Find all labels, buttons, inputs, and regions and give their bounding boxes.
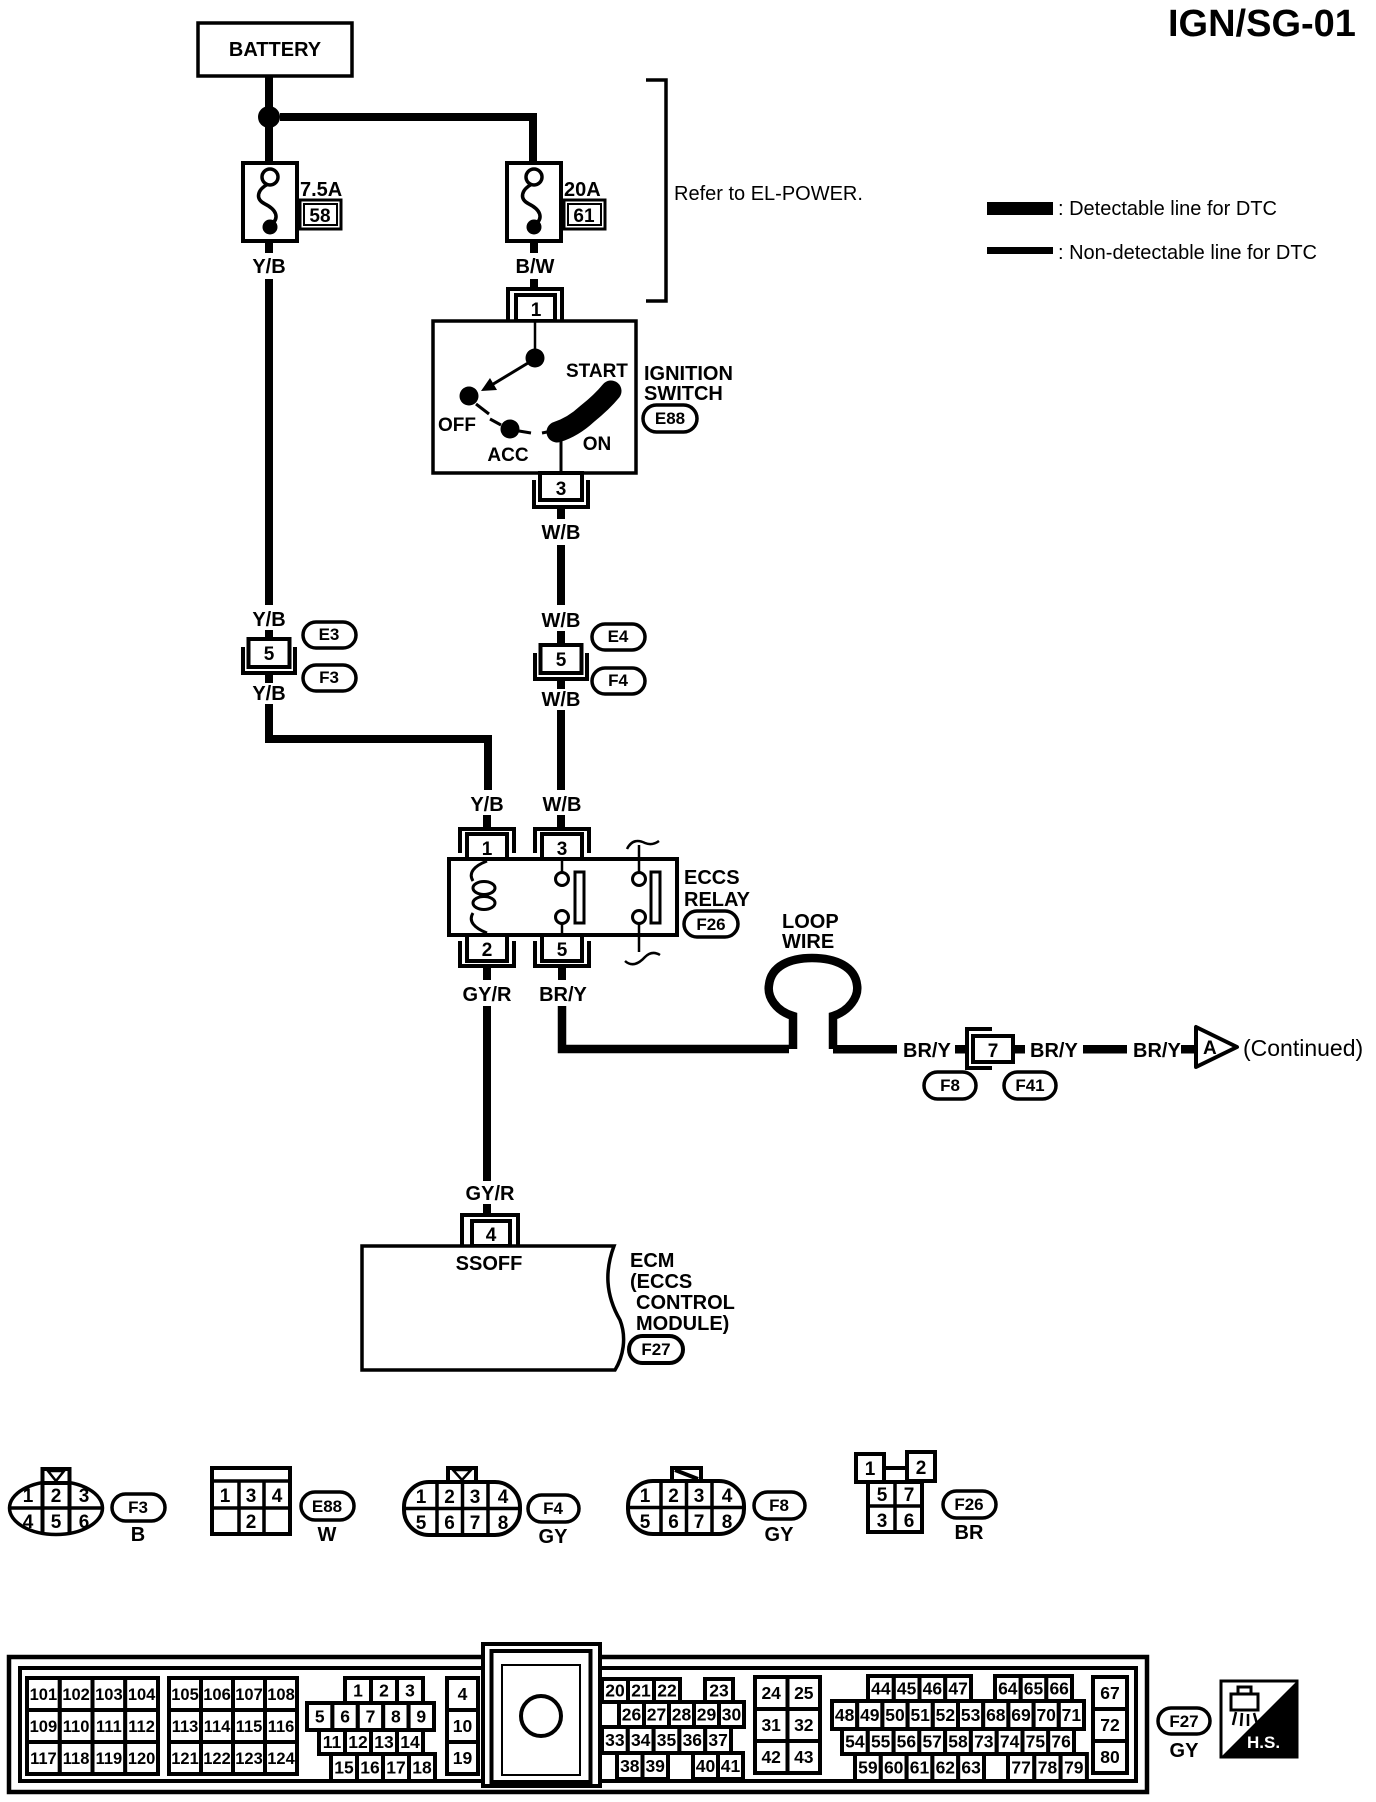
fuse 20A 61 — [507, 163, 605, 241]
svg-text:5: 5 — [416, 1513, 427, 1534]
svg-text:33: 33 — [605, 1730, 625, 1750]
label BR/Y before arrow A — [1133, 1040, 1181, 1062]
wire B/W to ignition switch pin 1 — [530, 279, 538, 291]
svg-text:11: 11 — [323, 1732, 342, 1752]
svg-text:F3: F3 — [128, 1498, 148, 1517]
connector oval F26 relay — [684, 911, 738, 937]
svg-text:5: 5 — [51, 1512, 62, 1533]
svg-text:26: 26 — [622, 1705, 642, 1725]
svg-text:W/B: W/B — [542, 522, 581, 544]
svg-text:15: 15 — [334, 1758, 354, 1778]
ECCS relay spare contact — [625, 841, 660, 964]
wire stub after connector 7 — [1015, 1045, 1025, 1054]
svg-text:F8: F8 — [940, 1076, 960, 1095]
label W/B above E4 — [542, 610, 581, 632]
svg-text:2: 2 — [246, 1512, 257, 1533]
svg-text:65: 65 — [1024, 1679, 1044, 1699]
svg-text:GY: GY — [1170, 1740, 1200, 1762]
wire stub below F3 — [265, 673, 273, 683]
connector oval E4 — [592, 624, 645, 650]
svg-text:104: 104 — [128, 1686, 156, 1704]
svg-text:8: 8 — [391, 1707, 401, 1727]
svg-text:120: 120 — [128, 1750, 156, 1768]
svg-text:24: 24 — [761, 1683, 781, 1703]
pin 1 ECCS relay — [460, 829, 514, 860]
svg-text:117: 117 — [30, 1750, 57, 1768]
ECM block terminals 1-19 — [307, 1678, 435, 1781]
svg-text:Y/B: Y/B — [252, 683, 285, 705]
svg-text:38: 38 — [620, 1756, 640, 1776]
svg-text:17: 17 — [386, 1758, 405, 1778]
svg-text:ECCS: ECCS — [684, 867, 740, 889]
svg-text:F27: F27 — [1169, 1712, 1198, 1731]
svg-text:H.S.: H.S. — [1247, 1733, 1280, 1752]
svg-text:F26: F26 — [696, 915, 725, 934]
svg-text:3: 3 — [877, 1511, 888, 1532]
svg-text:3: 3 — [470, 1487, 481, 1508]
label GY color F8 — [765, 1524, 795, 1546]
svg-text:101: 101 — [30, 1686, 58, 1704]
ECM block terminals 20-23 — [602, 1679, 733, 1702]
ignition switch ON contact arc — [542, 391, 611, 473]
svg-text:W: W — [318, 1524, 337, 1546]
svg-text:A: A — [1203, 1038, 1217, 1059]
connector face F8 — [628, 1468, 744, 1534]
connector 5 E3/F3 — [243, 639, 295, 673]
ignition switch internal wiper — [481, 321, 545, 391]
H.S. icon — [1221, 1681, 1297, 1757]
svg-text:22: 22 — [657, 1681, 677, 1701]
svg-text:BR/Y: BR/Y — [1030, 1040, 1078, 1062]
svg-text:OFF: OFF — [438, 415, 476, 436]
svg-text:B: B — [131, 1524, 145, 1546]
label W color E88 — [318, 1524, 337, 1546]
svg-text:4: 4 — [498, 1487, 509, 1508]
svg-text:103: 103 — [95, 1686, 123, 1704]
connector 5 E4/F4 — [535, 645, 587, 679]
svg-text:4: 4 — [23, 1512, 34, 1533]
svg-text:ACC: ACC — [487, 445, 528, 466]
svg-text:106: 106 — [203, 1686, 231, 1704]
svg-text:6: 6 — [668, 1512, 679, 1533]
svg-text:F4: F4 — [608, 671, 628, 690]
wire Y/B vertical long — [265, 279, 273, 605]
svg-text:F41: F41 — [1015, 1076, 1044, 1095]
svg-text:29: 29 — [697, 1705, 717, 1725]
ECM block terminals 59-63 — [855, 1754, 984, 1781]
svg-text:110: 110 — [63, 1718, 90, 1736]
connector oval F3 bottom — [112, 1494, 165, 1521]
svg-text:(Continued): (Continued) — [1243, 1035, 1363, 1061]
ECM block terminals 33-37 — [602, 1727, 731, 1753]
svg-text:3: 3 — [556, 479, 567, 500]
ECM connector block outer frame — [9, 1657, 1147, 1792]
svg-text:55: 55 — [871, 1732, 891, 1752]
svg-text:(ECCS: (ECCS — [630, 1271, 692, 1293]
wire BR/Y loop to label — [833, 1045, 897, 1054]
svg-text:66: 66 — [1049, 1679, 1069, 1699]
svg-text:64: 64 — [998, 1679, 1018, 1699]
wire W/B to E4 — [557, 545, 565, 605]
svg-text:78: 78 — [1038, 1758, 1058, 1778]
ECM block terminals 24 25 31 32 42 43 — [755, 1677, 820, 1773]
svg-text:60: 60 — [884, 1758, 904, 1778]
svg-text:36: 36 — [683, 1730, 703, 1750]
svg-text:SWITCH: SWITCH — [644, 383, 723, 405]
svg-text:E3: E3 — [319, 625, 340, 644]
svg-text:4: 4 — [272, 1486, 283, 1507]
svg-text:8: 8 — [498, 1513, 509, 1534]
svg-text:Refer to EL-POWER.: Refer to EL-POWER. — [674, 183, 863, 205]
svg-text:BR: BR — [955, 1522, 984, 1544]
label B/W — [516, 256, 555, 278]
label B color F3 — [131, 1524, 145, 1546]
svg-text:2: 2 — [379, 1681, 389, 1701]
connector oval E88 bottom — [301, 1492, 354, 1520]
svg-text:18: 18 — [412, 1758, 432, 1778]
svg-text:108: 108 — [267, 1686, 295, 1704]
connector oval E88 — [643, 405, 697, 432]
ECM block terminals 4 10 19 — [447, 1678, 478, 1774]
svg-text:6: 6 — [904, 1511, 915, 1532]
wire BR/Y down right to loop — [562, 1006, 789, 1049]
svg-text:E4: E4 — [608, 627, 629, 646]
svg-text:13: 13 — [374, 1732, 394, 1752]
svg-text:6: 6 — [444, 1513, 455, 1534]
svg-text:70: 70 — [1036, 1705, 1056, 1725]
svg-text:61: 61 — [910, 1758, 930, 1778]
pin 4 ECM connector — [462, 1215, 518, 1246]
legend detectable line for DTC — [987, 198, 1277, 220]
svg-text:59: 59 — [858, 1758, 878, 1778]
svg-text:63: 63 — [961, 1758, 981, 1778]
wire stub GY/R below relay pin 2 — [483, 966, 491, 980]
wire battery to junction — [265, 76, 273, 108]
wire junction to fuse 61 — [280, 117, 533, 163]
svg-text:4: 4 — [722, 1486, 733, 1507]
svg-text:CONTROL: CONTROL — [636, 1292, 735, 1314]
svg-text:109: 109 — [30, 1718, 58, 1736]
svg-text:1: 1 — [416, 1487, 427, 1508]
svg-text:61: 61 — [573, 206, 595, 227]
svg-text:47: 47 — [948, 1679, 967, 1699]
connector 7 F8/F41 — [967, 1029, 1013, 1068]
svg-text:E88: E88 — [312, 1497, 342, 1516]
svg-text:10: 10 — [453, 1716, 473, 1736]
svg-text:46: 46 — [923, 1679, 943, 1699]
wire Y/B down and right to relay pin 1 — [269, 704, 488, 790]
svg-text:ON: ON — [583, 434, 612, 455]
svg-text:69: 69 — [1011, 1705, 1031, 1725]
svg-text:2: 2 — [482, 940, 493, 961]
svg-text:20: 20 — [605, 1681, 625, 1701]
svg-text:2: 2 — [916, 1458, 927, 1479]
svg-text:W/B: W/B — [542, 689, 581, 711]
wire stub below F4 — [557, 679, 565, 689]
wire BR/Y middle segment — [1083, 1045, 1127, 1054]
svg-text:WIRE: WIRE — [782, 931, 834, 953]
svg-text:34: 34 — [631, 1730, 651, 1750]
label GY/R above ECM pin 4 — [466, 1183, 515, 1205]
legend non-detectable line for DTC — [987, 242, 1317, 264]
connector oval F3 — [303, 665, 356, 691]
connector face E88 — [212, 1468, 290, 1534]
wire W/B down to relay pin 3 — [557, 710, 565, 790]
svg-text:W/B: W/B — [542, 610, 581, 632]
svg-text:1: 1 — [640, 1486, 651, 1507]
ignition switch name — [644, 363, 733, 405]
svg-text:1: 1 — [220, 1486, 231, 1507]
svg-text:31: 31 — [761, 1715, 781, 1735]
svg-text:54: 54 — [845, 1732, 865, 1752]
svg-text:48: 48 — [835, 1705, 855, 1725]
ECCS relay coil — [471, 861, 495, 933]
svg-text:3: 3 — [246, 1486, 257, 1507]
svg-text:43: 43 — [794, 1747, 814, 1767]
svg-text:7: 7 — [988, 1041, 999, 1062]
svg-text:E88: E88 — [655, 409, 685, 428]
svg-text:1: 1 — [23, 1486, 34, 1507]
svg-text:119: 119 — [96, 1750, 123, 1768]
connector face F3 — [10, 1469, 103, 1535]
pin 5 ECCS relay — [535, 935, 589, 966]
svg-text:LOOP: LOOP — [782, 911, 839, 933]
wire stub into connector E4 — [557, 631, 565, 645]
svg-text:6: 6 — [79, 1512, 90, 1533]
svg-text:B/W: B/W — [516, 256, 555, 278]
ECCS relay box F26 — [449, 859, 677, 935]
pin 3 ignition switch connector — [534, 473, 588, 507]
svg-text:IGNITION: IGNITION — [644, 363, 733, 385]
svg-text:53: 53 — [961, 1705, 981, 1725]
svg-text:72: 72 — [1100, 1715, 1120, 1735]
label (Continued) — [1243, 1035, 1363, 1061]
connector oval F4 bottom — [528, 1495, 579, 1522]
svg-text:5: 5 — [557, 940, 568, 961]
svg-text:F3: F3 — [319, 668, 339, 687]
wire stub W/B into relay pin 3 — [557, 815, 565, 829]
ignition switch OFF contact — [438, 387, 489, 437]
connector oval F27 bottom — [1158, 1708, 1210, 1734]
svg-text:76: 76 — [1051, 1732, 1071, 1752]
wire stub Y/B into relay pin 1 — [483, 815, 491, 829]
label Y/B above E3 — [252, 609, 285, 631]
ECM block terminals 67 72 80 — [1093, 1677, 1127, 1773]
svg-text:ECM: ECM — [630, 1250, 674, 1272]
label BR color F26 — [955, 1522, 984, 1544]
node A continuation arrow — [1196, 1027, 1237, 1067]
connector oval F27 — [629, 1336, 683, 1363]
svg-text:5: 5 — [315, 1707, 325, 1727]
svg-text:44: 44 — [871, 1679, 891, 1699]
fuse 7.5A 58 — [243, 163, 342, 241]
svg-text:30: 30 — [722, 1705, 742, 1725]
svg-text:21: 21 — [631, 1681, 651, 1701]
svg-text:42: 42 — [761, 1747, 781, 1767]
svg-text:112: 112 — [128, 1718, 155, 1736]
svg-text:: Detectable line for DTC: : Detectable line for DTC — [1058, 198, 1277, 220]
svg-text:45: 45 — [897, 1679, 917, 1699]
pin 1 ignition switch connector — [508, 289, 562, 321]
svg-text:121: 121 — [171, 1750, 199, 1768]
wire stub BR/Y below relay pin 5 — [558, 966, 566, 980]
svg-text:73: 73 — [974, 1732, 994, 1752]
title IGN/SG-01 — [1168, 3, 1356, 45]
svg-text:20A: 20A — [564, 179, 601, 201]
svg-text:37: 37 — [708, 1730, 727, 1750]
svg-text:49: 49 — [860, 1705, 880, 1725]
svg-text:58: 58 — [948, 1732, 968, 1752]
svg-text:F26: F26 — [954, 1495, 983, 1514]
svg-text:5: 5 — [877, 1485, 888, 1506]
ECM block terminals 26-30 — [619, 1702, 744, 1727]
svg-text:1: 1 — [353, 1681, 363, 1701]
svg-text:14: 14 — [400, 1732, 420, 1752]
connector oval F26 bottom — [943, 1491, 996, 1518]
loop wire — [769, 911, 858, 1049]
svg-text:MODULE): MODULE) — [636, 1313, 729, 1335]
svg-text:5: 5 — [640, 1512, 651, 1533]
svg-text:START: START — [566, 361, 628, 382]
svg-text:107: 107 — [235, 1686, 263, 1704]
svg-text:1: 1 — [482, 839, 493, 860]
svg-text:32: 32 — [794, 1715, 814, 1735]
ignition switch box E88 — [433, 321, 636, 473]
svg-text:2: 2 — [51, 1486, 62, 1507]
svg-text:74: 74 — [1000, 1732, 1020, 1752]
svg-text:3: 3 — [694, 1486, 705, 1507]
svg-text:28: 28 — [672, 1705, 692, 1725]
svg-text:50: 50 — [885, 1705, 905, 1725]
svg-text:62: 62 — [936, 1758, 956, 1778]
svg-text:GY/R: GY/R — [466, 1183, 515, 1205]
svg-text:68: 68 — [986, 1705, 1006, 1725]
svg-text:51: 51 — [910, 1705, 930, 1725]
svg-text:IGN/SG-01: IGN/SG-01 — [1168, 3, 1356, 45]
svg-text:5: 5 — [264, 644, 275, 665]
svg-text:79: 79 — [1064, 1758, 1084, 1778]
svg-text:40: 40 — [696, 1756, 716, 1776]
svg-text:1: 1 — [531, 300, 542, 321]
label GY color F27 — [1170, 1740, 1200, 1762]
wire stub before arrow A — [1181, 1045, 1196, 1054]
label BR/Y before connector 7 — [903, 1040, 951, 1062]
connector face F26 — [856, 1452, 935, 1532]
wire B/W fuse 61 down — [530, 240, 538, 253]
svg-text:6: 6 — [340, 1707, 350, 1727]
svg-text:2: 2 — [444, 1487, 455, 1508]
svg-text:116: 116 — [268, 1718, 295, 1736]
pin 3 ECCS relay — [535, 829, 589, 860]
svg-text:3: 3 — [79, 1486, 90, 1507]
svg-text:BR/Y: BR/Y — [539, 984, 587, 1006]
svg-text:67: 67 — [1100, 1683, 1119, 1703]
pin 2 ECCS relay — [460, 935, 514, 966]
svg-text:GY: GY — [539, 1526, 569, 1548]
svg-text:8: 8 — [722, 1512, 733, 1533]
ECM block terminals 48-71 — [832, 1701, 1084, 1729]
svg-text:2: 2 — [668, 1486, 679, 1507]
svg-text:19: 19 — [453, 1748, 473, 1768]
ECM block terminals 54-76 — [842, 1729, 1074, 1754]
svg-text:F27: F27 — [641, 1340, 670, 1359]
ignition switch START label — [566, 361, 628, 382]
svg-text:77: 77 — [1011, 1758, 1030, 1778]
svg-text:41: 41 — [721, 1756, 741, 1776]
wire W/B below switch — [557, 507, 565, 519]
label GY/R below relay — [463, 984, 512, 1006]
svg-text:BATTERY: BATTERY — [229, 39, 322, 61]
svg-text:SSOFF: SSOFF — [456, 1253, 523, 1275]
label Y/B below F3 — [252, 683, 285, 705]
label Y/B above relay pin 1 — [470, 794, 503, 816]
svg-text:52: 52 — [936, 1705, 956, 1725]
bracket refer to EL-POWER — [646, 80, 863, 301]
svg-text:56: 56 — [897, 1732, 917, 1752]
ECM box F27 — [362, 1246, 624, 1370]
svg-text:27: 27 — [647, 1705, 666, 1725]
svg-text:RELAY: RELAY — [684, 889, 751, 911]
connector oval F41 inline — [1004, 1072, 1056, 1099]
wire Y/B fuse 58 down — [265, 241, 273, 253]
svg-text:Y/B: Y/B — [252, 256, 285, 278]
svg-text:23: 23 — [709, 1681, 729, 1701]
svg-text:57: 57 — [922, 1732, 941, 1752]
svg-text:122: 122 — [203, 1750, 231, 1768]
svg-text:25: 25 — [794, 1683, 814, 1703]
svg-text:: Non-detectable line for DTC: : Non-detectable line for DTC — [1058, 242, 1317, 264]
svg-text:16: 16 — [360, 1758, 380, 1778]
svg-text:GY/R: GY/R — [463, 984, 512, 1006]
wire junction to fuse 58 — [265, 126, 273, 163]
connector face F4 — [404, 1468, 520, 1535]
svg-text:F4: F4 — [543, 1499, 563, 1518]
svg-text:102: 102 — [62, 1686, 90, 1704]
svg-text:12: 12 — [348, 1732, 368, 1752]
svg-text:BR/Y: BR/Y — [1133, 1040, 1181, 1062]
svg-text:7: 7 — [694, 1512, 705, 1533]
svg-text:35: 35 — [657, 1730, 677, 1750]
label W/B above relay pin 3 — [543, 794, 582, 816]
svg-text:105: 105 — [171, 1686, 199, 1704]
svg-text:111: 111 — [96, 1718, 122, 1736]
svg-text:124: 124 — [267, 1750, 295, 1768]
svg-text:7: 7 — [366, 1707, 376, 1727]
battery — [198, 23, 352, 76]
svg-text:Y/B: Y/B — [470, 794, 503, 816]
ECM block terminals 77-79 — [1008, 1754, 1087, 1781]
svg-text:9: 9 — [416, 1707, 426, 1727]
svg-text:7: 7 — [470, 1513, 481, 1534]
svg-text:7.5A: 7.5A — [300, 179, 342, 201]
svg-text:3: 3 — [557, 839, 568, 860]
svg-text:71: 71 — [1062, 1705, 1082, 1725]
wire GY/R vertical long — [483, 1006, 491, 1181]
svg-text:GY: GY — [765, 1524, 795, 1546]
label BR/Y below relay — [539, 984, 587, 1006]
ECM block terminals 44-47 — [868, 1676, 971, 1701]
svg-text:115: 115 — [236, 1718, 263, 1736]
label W/B — [542, 522, 581, 544]
svg-text:39: 39 — [645, 1756, 665, 1776]
svg-text:BR/Y: BR/Y — [903, 1040, 951, 1062]
svg-text:123: 123 — [235, 1750, 263, 1768]
connector oval E3 — [303, 622, 356, 648]
connector oval F4 — [592, 668, 645, 694]
ECM connector block center tower — [483, 1644, 600, 1786]
svg-text:113: 113 — [172, 1718, 199, 1736]
svg-text:4: 4 — [486, 1225, 497, 1246]
